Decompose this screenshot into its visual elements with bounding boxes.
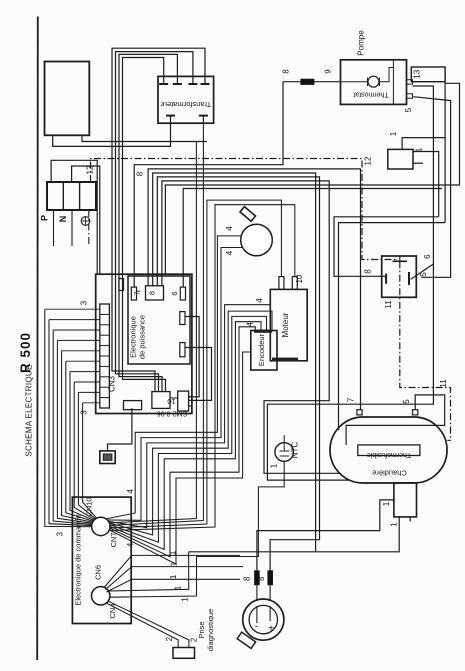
svg-text:CN6: CN6 [94,565,103,580]
svg-text:6: 6 [170,291,179,295]
svg-text:1: 1 [382,501,391,506]
svg-text:SM2-3.96: SM2-3.96 [157,410,187,417]
svg-text:-: - [255,622,258,633]
svg-text:8: 8 [148,291,157,295]
svg-text:8: 8 [282,69,291,74]
svg-text:4: 4 [245,322,254,327]
svg-text:8: 8 [364,269,373,274]
svg-text:Moteur: Moteur [281,312,290,337]
svg-text:8: 8 [135,171,144,176]
svg-text:1: 1 [269,463,278,468]
svg-text:4: 4 [225,226,234,231]
svg-text:13: 13 [413,69,422,78]
svg-text:SCHEMA ELECTRIQUE: SCHEMA ELECTRIQUE [25,364,34,456]
svg-text:12: 12 [364,156,373,165]
svg-text:CN7: CN7 [109,532,118,547]
svg-text:Prise: Prise [197,621,206,638]
svg-text:diagnostique: diagnostique [206,609,215,652]
svg-text:Electronique: Electronique [129,316,138,358]
svg-text:1: 1 [181,597,190,602]
svg-text:CN3: CN3 [108,375,117,392]
svg-text:4: 4 [225,250,234,255]
svg-text:8: 8 [243,576,252,581]
svg-text:11: 11 [439,379,448,388]
svg-text:Electronique de commande: Electronique de commande [74,514,83,605]
svg-text:3: 3 [80,410,89,415]
svg-text:1: 1 [414,147,423,152]
svg-text:Thermofusible: Thermofusible [367,451,411,458]
svg-text:NTC: NTC [291,442,300,459]
svg-text:3: 3 [56,532,65,537]
svg-text:4: 4 [126,489,135,494]
svg-text:1: 1 [389,131,398,136]
svg-text:P: P [40,215,50,221]
svg-text:5: 5 [404,107,413,112]
svg-text:1: 1 [170,561,179,566]
svg-text:4: 4 [255,298,264,303]
svg-text:10: 10 [167,397,175,406]
svg-text:1: 1 [174,585,183,590]
svg-text:de puissance: de puissance [138,315,147,359]
svg-text:4: 4 [126,542,135,547]
svg-text:5: 5 [419,272,428,277]
svg-text:6: 6 [423,254,432,259]
svg-text:3: 3 [80,300,89,305]
svg-text:1: 1 [169,574,178,579]
svg-text:1: 1 [169,550,178,555]
svg-text:9: 9 [324,69,333,74]
svg-text:7: 7 [346,397,355,402]
svg-text:8: 8 [257,576,266,581]
svg-text:2: 2 [165,636,174,641]
svg-text:+: + [268,624,274,635]
svg-text:10: 10 [295,274,304,283]
svg-text:Pompe: Pompe [357,30,366,56]
svg-text:12: 12 [86,165,95,174]
svg-text:Encodeur: Encodeur [257,333,266,366]
svg-text:Transformateur: Transformateur [160,100,211,109]
svg-text:Chaudière: Chaudière [372,469,407,478]
svg-text:5: 5 [402,399,411,404]
svg-text:1: 1 [390,522,399,527]
svg-text:N: N [58,216,68,223]
svg-text:7: 7 [133,291,142,295]
svg-text:Thermostat: Thermostat [353,91,388,98]
svg-text:11: 11 [384,300,393,309]
